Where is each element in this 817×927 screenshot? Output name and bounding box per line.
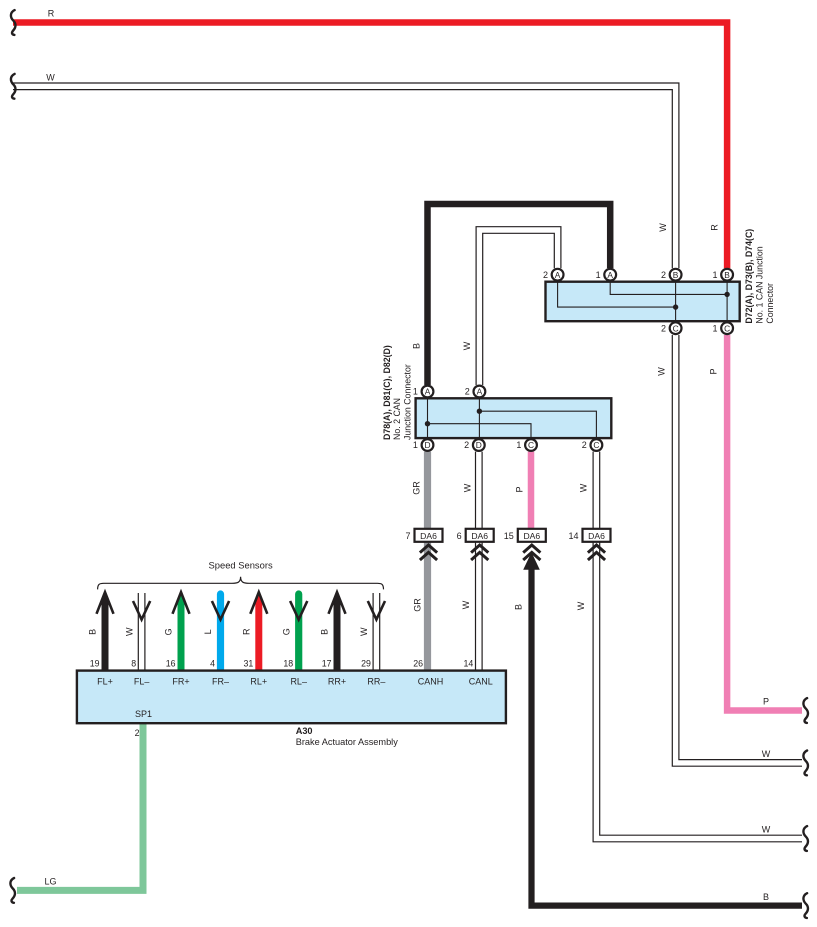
connector DA6 pin 6	[457, 529, 494, 542]
break symbol left end of LG wire	[10, 878, 15, 903]
pin number 16 of A30	[166, 658, 176, 668]
svg-text:LG: LG	[44, 877, 56, 887]
wire W (white) No.1 CAN junction pin 2C to right edge	[676, 335, 802, 763]
internal wire 2A to 2D	[478, 399, 480, 439]
pin number 14 of A30	[464, 658, 474, 668]
svg-text:1: 1	[516, 440, 521, 450]
svg-text:1: 1	[413, 440, 418, 450]
pin label FR– inside A30	[212, 677, 229, 687]
svg-text:1: 1	[596, 270, 601, 280]
svg-text:14: 14	[568, 531, 578, 541]
label B on FL+ wire	[88, 629, 98, 635]
svg-text:26: 26	[413, 658, 423, 668]
svg-text:G: G	[281, 628, 291, 635]
label D72(A), D73(B), D74(C)	[744, 229, 754, 324]
pin number 29 of A30	[361, 658, 371, 668]
svg-text:W: W	[762, 825, 771, 835]
svg-text:C: C	[673, 323, 679, 333]
junction dot on 2A line	[477, 409, 482, 414]
label W at right end lower	[762, 825, 771, 835]
svg-text:G: G	[164, 628, 174, 635]
svg-text:DA6: DA6	[471, 531, 488, 541]
internal wire 1B to 1C	[726, 282, 728, 321]
svg-text:D72(A), D73(B), D74(C): D72(A), D73(B), D74(C)	[744, 229, 754, 324]
wire W (white) from left edge to No.1 CAN junction pin 2B	[13, 86, 676, 268]
pin label FL+ inside A30	[97, 677, 113, 687]
label W above DA6 6	[462, 483, 472, 492]
pin label FR+ inside A30	[172, 677, 189, 687]
label W on FL– wire	[124, 627, 134, 636]
label W on white vertical drop	[658, 223, 668, 232]
pin 2A of No.2 CAN junction	[465, 386, 486, 398]
label W at right end	[762, 749, 771, 759]
label B at right end	[763, 892, 769, 902]
svg-text:RL–: RL–	[290, 677, 307, 687]
internal wire 2B to 2C	[675, 282, 677, 321]
internal wire 1A branch to 1C	[428, 424, 532, 438]
wire R speed sensor RL+ into A30 pin 31	[250, 592, 267, 671]
shield chevrons below DA6 pin 7	[420, 545, 437, 560]
svg-text:C: C	[724, 323, 730, 333]
svg-text:2: 2	[582, 440, 587, 450]
svg-text:1: 1	[712, 323, 717, 333]
svg-text:No. 1 CAN Junction: No. 1 CAN Junction	[754, 246, 764, 323]
label B on RR+ wire	[320, 629, 330, 635]
label Speed Sensors	[209, 560, 273, 571]
svg-text:A: A	[607, 270, 613, 280]
wire LG (light green) from A30 SP1 pin 2 to left edge	[17, 723, 143, 890]
svg-text:RR+: RR+	[328, 677, 346, 687]
svg-text:14: 14	[464, 658, 474, 668]
svg-text:No. 2 CAN: No. 2 CAN	[392, 398, 402, 440]
wire P (pink) No.2 CAN junction pin 1C to DA6-15	[528, 452, 535, 530]
svg-text:D: D	[476, 440, 482, 450]
svg-text:2: 2	[661, 270, 666, 280]
svg-text:W: W	[124, 627, 134, 636]
svg-text:B: B	[320, 629, 330, 635]
wire W (white) No.2 CAN junction pin 2D through DA6-6 to A30 pin 14 CANL	[475, 452, 483, 672]
pin label RR– inside A30	[367, 677, 385, 687]
svg-text:16: 16	[166, 658, 176, 668]
label B on black wire	[411, 343, 421, 349]
svg-text:W: W	[46, 73, 55, 83]
svg-text:C: C	[528, 440, 534, 450]
shield chevrons below DA6 pin 6	[471, 545, 488, 560]
svg-text:1: 1	[712, 270, 717, 280]
svg-text:L: L	[203, 629, 213, 634]
pin label FL– inside A30	[134, 677, 150, 687]
svg-text:SP1: SP1	[135, 709, 152, 719]
break symbol right end of P wire	[803, 698, 808, 723]
svg-text:W: W	[576, 601, 586, 610]
junction connector box D72/D73/D74 No.1 CAN	[546, 282, 740, 322]
svg-text:Brake Actuator Assembly: Brake Actuator Assembly	[296, 737, 399, 747]
label No. 2 CAN	[392, 398, 402, 440]
label W on top white wire	[46, 73, 55, 83]
pin 1C of No.1 CAN junction	[712, 322, 733, 334]
svg-text:1: 1	[413, 387, 418, 397]
svg-text:RR–: RR–	[367, 677, 385, 687]
label GR above DA6 7	[412, 481, 422, 495]
wire B speed sensor FL+ into A30 pin 19	[97, 592, 114, 671]
label W above DA6 14	[579, 483, 589, 492]
pin 1C of No.2 CAN junction	[516, 439, 537, 451]
svg-text:W: W	[462, 483, 472, 492]
component box A30 Brake Actuator Assembly	[77, 671, 506, 724]
wire G speed sensor FR+ into A30 pin 16	[173, 592, 190, 671]
svg-text:29: 29	[361, 658, 371, 668]
label B below DA6 15	[514, 604, 524, 610]
pin label RL+ inside A30	[250, 677, 267, 687]
break symbol left end of W wire	[11, 74, 16, 99]
label D78(A), D81(C), D82(D)	[382, 345, 392, 440]
label L on FR– wire	[203, 629, 213, 634]
svg-text:W: W	[579, 483, 589, 492]
pin label RL– inside A30	[290, 677, 307, 687]
pin 2B of No.1 CAN junction	[661, 269, 682, 281]
label No. 1 CAN Junction	[754, 246, 764, 323]
connector DA6 pin 15	[504, 529, 546, 542]
svg-text:A30: A30	[296, 726, 313, 736]
svg-text:6: 6	[457, 531, 462, 541]
svg-text:P: P	[514, 486, 524, 492]
svg-text:8: 8	[131, 658, 136, 668]
label P above DA6 15	[514, 486, 524, 492]
svg-text:2: 2	[661, 323, 666, 333]
internal wire 2A branch to 2C	[479, 411, 596, 438]
wire L speed sensor FR– into A30 pin 4	[212, 594, 229, 672]
pin number 17 of A30	[322, 658, 332, 668]
svg-text:FL–: FL–	[134, 677, 150, 687]
svg-text:DA6: DA6	[588, 531, 605, 541]
svg-text:W: W	[658, 223, 668, 232]
svg-text:B: B	[514, 604, 524, 610]
wire W (white) No.2 CAN junction pin 2C through DA6-14 to right edge	[596, 452, 802, 839]
pin number 31 of A30	[244, 658, 254, 668]
internal wire 1A to 1B inside No.1 CAN junction	[610, 282, 727, 294]
svg-text:R: R	[48, 9, 55, 19]
break symbol right end of W wire	[803, 751, 808, 776]
svg-text:7: 7	[405, 531, 410, 541]
junction dot on 1B line	[724, 292, 729, 297]
wire W speed sensor FL– into A30 pin 8	[133, 593, 150, 672]
svg-text:FR–: FR–	[212, 677, 229, 687]
svg-text:D78(A), D81(C), D82(D): D78(A), D81(C), D82(D)	[382, 345, 392, 440]
label A30	[296, 726, 313, 736]
svg-text:FL+: FL+	[97, 677, 113, 687]
svg-text:W: W	[462, 341, 472, 350]
svg-text:A: A	[477, 387, 483, 397]
pin number 4 of A30	[210, 658, 215, 668]
svg-text:RL+: RL+	[250, 677, 267, 687]
svg-text:Connector: Connector	[765, 283, 775, 324]
pin number 18 of A30	[283, 658, 293, 668]
label Junction Connector (No.2)	[402, 364, 412, 440]
svg-text:17: 17	[322, 658, 332, 668]
svg-text:GR: GR	[413, 598, 423, 612]
svg-text:DA6: DA6	[420, 531, 437, 541]
internal wire 2A to 2B inside No.1 CAN junction	[558, 282, 676, 307]
label P at right end	[763, 697, 769, 707]
svg-text:GR: GR	[412, 481, 422, 495]
svg-text:R: R	[242, 628, 252, 635]
pin 2C of No.2 CAN junction	[582, 439, 603, 451]
junction dot on 2B line	[673, 304, 678, 309]
pin 2D of No.2 CAN junction	[464, 439, 485, 451]
shield chevrons below DA6 pin 15	[523, 545, 540, 560]
wire W (white) No.2 CAN junction pin 2A to No.1 CAN junction pin 2A	[479, 230, 557, 385]
svg-text:B: B	[763, 892, 769, 902]
svg-text:P: P	[709, 368, 719, 374]
label R on RL+ wire	[242, 628, 252, 635]
pin label CANL inside A30	[469, 677, 493, 687]
svg-text:C: C	[593, 440, 599, 450]
label Connector (No.1)	[765, 283, 775, 324]
break symbol left end of R wire	[11, 10, 16, 35]
svg-text:Junction Connector: Junction Connector	[402, 364, 412, 440]
svg-text:B: B	[673, 270, 679, 280]
svg-text:W: W	[762, 749, 771, 759]
label SP1 splice inside A30	[135, 709, 152, 719]
pin 1A of No.1 CAN junction	[596, 269, 617, 281]
label G on RL– wire	[281, 628, 291, 635]
svg-text:W: W	[657, 367, 667, 376]
wire P (pink) No.1 CAN junction pin 1C to right edge	[727, 335, 802, 711]
break symbol right end of B wire	[803, 893, 808, 918]
svg-text:DA6: DA6	[523, 531, 540, 541]
svg-text:P: P	[763, 697, 769, 707]
svg-text:2: 2	[543, 270, 548, 280]
svg-text:W: W	[461, 600, 471, 609]
label R on red vertical drop	[710, 224, 720, 231]
label LG	[44, 877, 56, 887]
label P on pink vertical	[709, 368, 719, 374]
connector DA6 pin 7	[405, 529, 442, 542]
svg-text:Speed Sensors: Speed Sensors	[209, 560, 273, 571]
pin label RR+ inside A30	[328, 677, 346, 687]
svg-text:B: B	[88, 629, 98, 635]
svg-text:B: B	[724, 270, 730, 280]
label R on top red wire	[48, 9, 55, 19]
wire W speed sensor RR– into A30 pin 29	[368, 593, 385, 672]
svg-text:2: 2	[465, 387, 470, 397]
wire B (black) below DA6-15 to right edge with arrowhead	[523, 552, 802, 905]
pin 2A of No.1 CAN junction	[543, 269, 564, 281]
svg-text:15: 15	[504, 531, 514, 541]
label GR below DA6 7	[413, 598, 423, 612]
svg-text:19: 19	[90, 658, 100, 668]
pin 1D of No.2 CAN junction	[413, 439, 434, 451]
wire GR (gray) No.2 CAN junction pin 1D through DA6-7 to A30 pin 26 CANH	[424, 452, 431, 672]
svg-text:B: B	[411, 343, 421, 349]
break symbol right end of lower W wire	[803, 826, 808, 851]
svg-text:FR+: FR+	[172, 677, 189, 687]
curly brace over speed sensor wires	[98, 577, 384, 590]
junction connector box D78/D81/D82 No.2 CAN	[416, 398, 612, 438]
label W on white vertical from 2C	[657, 367, 667, 376]
svg-text:CANL: CANL	[469, 677, 493, 687]
junction dot on 1A line	[425, 421, 430, 426]
pin 2C of No.1 CAN junction	[661, 322, 682, 334]
pin label CANH inside A30	[418, 677, 444, 687]
label W on RR– wire	[359, 627, 369, 636]
svg-text:2: 2	[464, 440, 469, 450]
svg-text:A: A	[425, 387, 431, 397]
pin 1B of No.1 CAN junction	[712, 269, 733, 281]
label W below DA6 14	[576, 601, 586, 610]
svg-text:CANH: CANH	[418, 677, 444, 687]
pin number 8 of A30	[131, 658, 136, 668]
label G on FR+ wire	[164, 628, 174, 635]
svg-text:R: R	[710, 224, 720, 231]
shield chevrons below DA6 pin 14	[588, 545, 605, 560]
svg-text:18: 18	[283, 658, 293, 668]
pin number 19 of A30	[90, 658, 100, 668]
svg-text:31: 31	[244, 658, 254, 668]
pin number 2 of A30 SP1	[135, 728, 140, 738]
label Brake Actuator Assembly	[296, 737, 399, 747]
wire B speed sensor RR+ into A30 pin 17	[329, 592, 346, 671]
pin number 26 of A30	[413, 658, 423, 668]
svg-text:D: D	[424, 440, 430, 450]
svg-text:4: 4	[210, 658, 215, 668]
connector DA6 pin 14	[568, 529, 610, 542]
wire G speed sensor RL– into A30 pin 18	[290, 594, 307, 672]
svg-text:2: 2	[135, 728, 140, 738]
label W below DA6 6	[461, 600, 471, 609]
pin 1A of No.2 CAN junction	[413, 386, 434, 398]
wire B (black) No.2 CAN junction pin 1A to No.1 CAN junction pin 1A	[428, 204, 611, 385]
wire R (red) from left edge to No.1 CAN junction pin 1B	[13, 23, 727, 269]
svg-text:W: W	[359, 627, 369, 636]
internal wire 1A to 1D	[427, 399, 429, 439]
label W on white wire	[462, 341, 472, 350]
svg-text:A: A	[555, 270, 561, 280]
